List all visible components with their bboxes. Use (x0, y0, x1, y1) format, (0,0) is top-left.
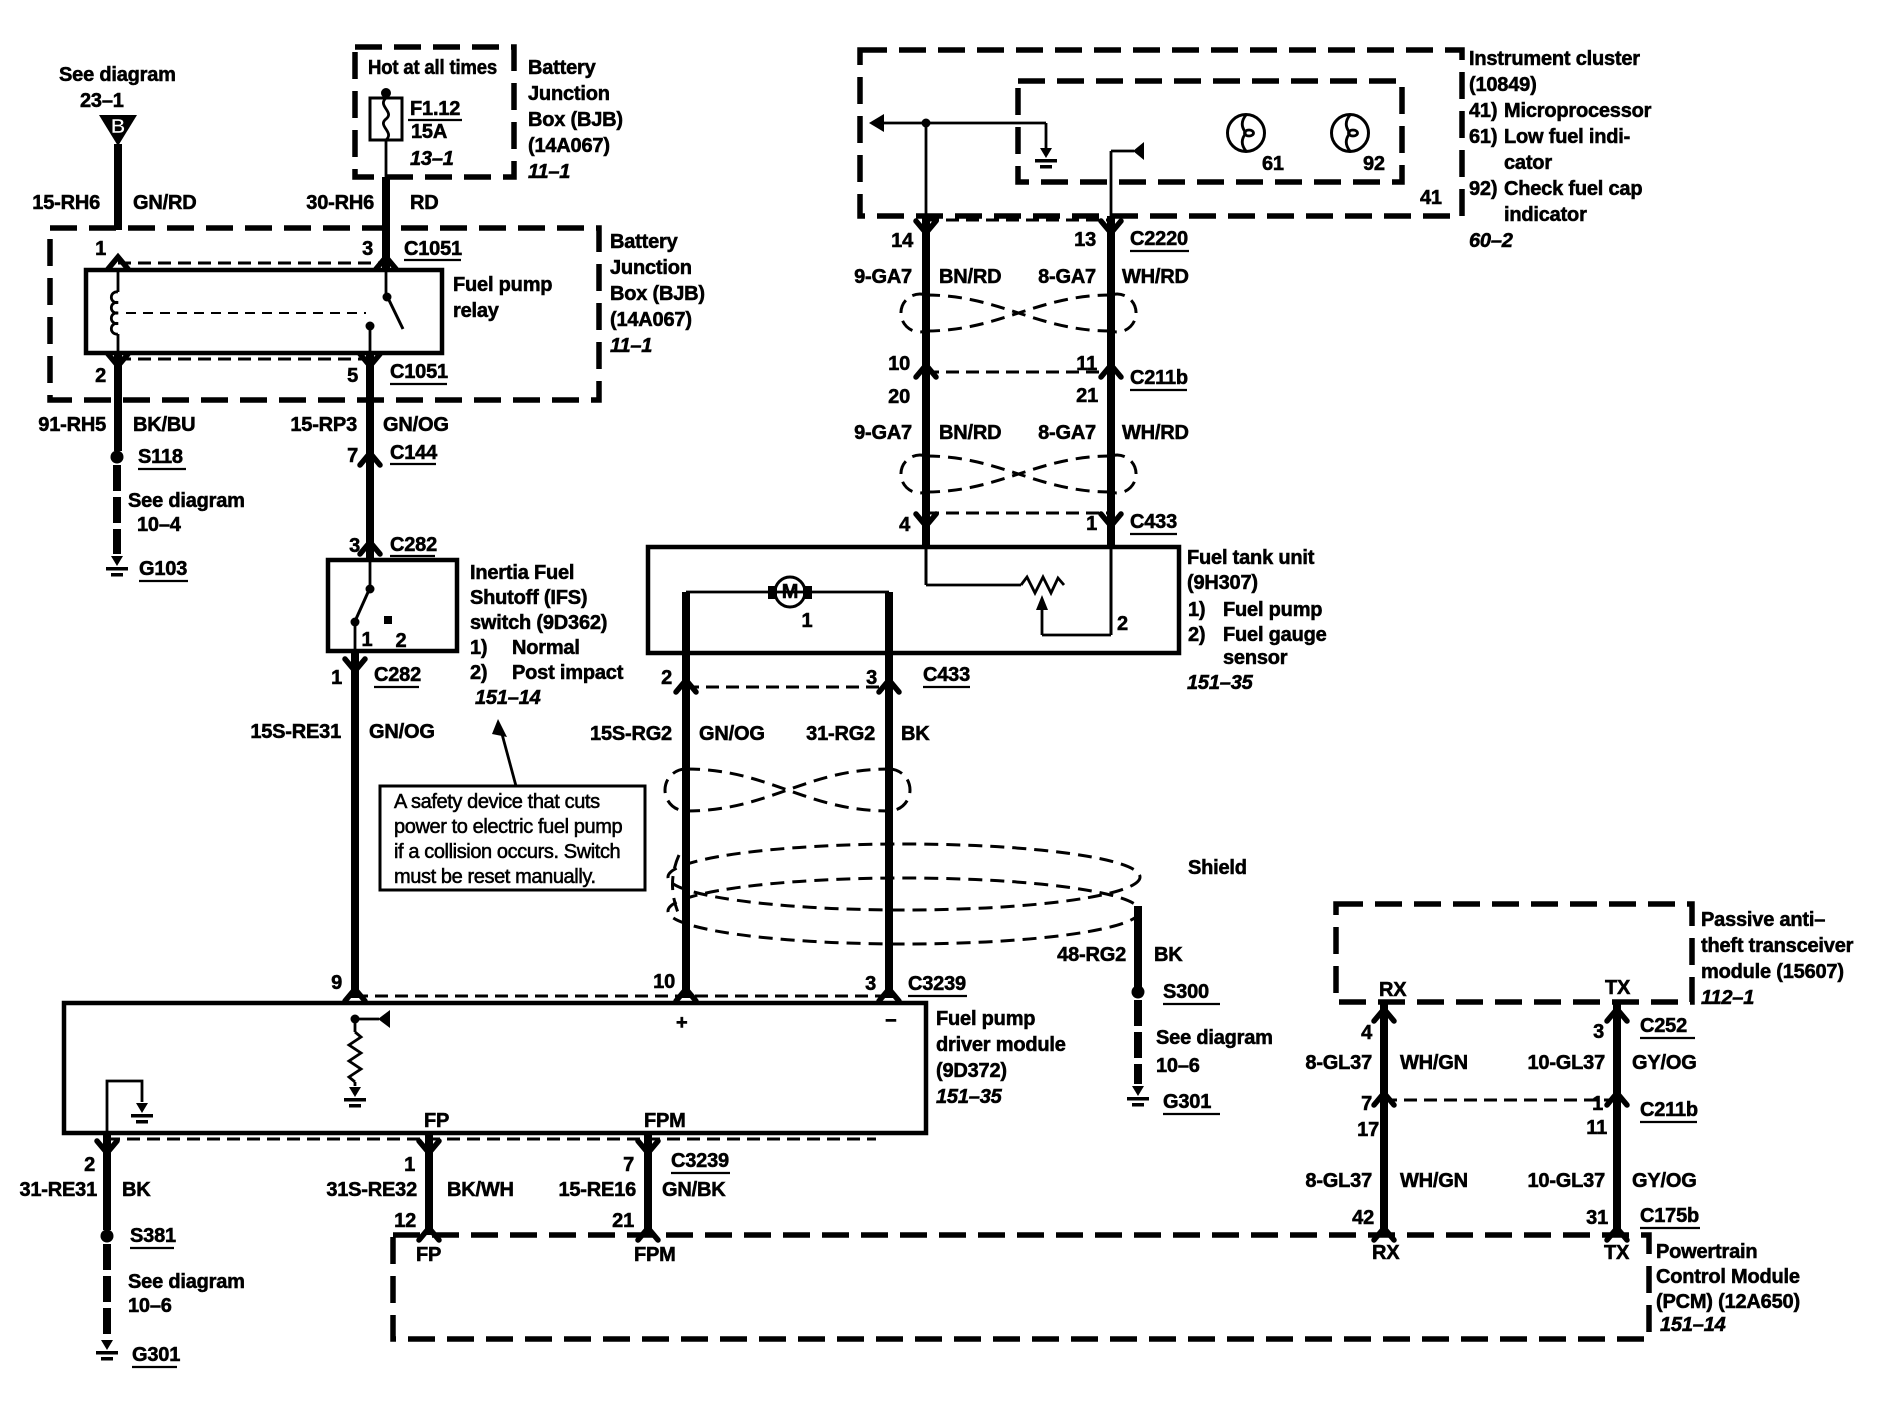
pin labels 7 1 C211b 17 11 (1357, 1093, 1698, 1141)
passive anti-theft transceiver module box (dashed) (1336, 904, 1692, 1002)
pin 13 chevron (1101, 221, 1121, 233)
svg-text:10–6: 10–6 (1156, 1055, 1200, 1077)
connector C433 dashed line (926, 512, 1111, 515)
svg-text:relay: relay (453, 300, 500, 322)
svg-text:9-GA7: 9-GA7 (854, 422, 912, 444)
connector C144 pin 7 chevron (360, 453, 380, 465)
wire labels 31S-RE32 BK/WH 15-RE16 GN/BK (326, 1179, 726, 1201)
pin labels 42 31 C175b (1352, 1205, 1700, 1229)
svg-text:Battery: Battery (610, 231, 679, 253)
wire S300 to G301 (dashed thick) (1134, 1000, 1142, 1084)
svg-text:GY/OG: GY/OG (1632, 1052, 1697, 1074)
svg-text:Control Module: Control Module (1656, 1266, 1800, 1288)
svg-text:+: + (676, 1012, 687, 1034)
pin labels 14 13 C2220 (891, 228, 1189, 252)
svg-text:3: 3 (866, 667, 877, 689)
svg-text:RX: RX (1372, 1242, 1400, 1264)
wire label 91-RH5 BK/BU (38, 414, 195, 436)
svg-text:BK/BU: BK/BU (133, 414, 195, 436)
svg-text:20: 20 (888, 386, 910, 408)
svg-text:48-RG2: 48-RG2 (1057, 944, 1126, 966)
cluster internal wire pin 14 (925, 123, 928, 216)
svg-text:C211b: C211b (1130, 367, 1188, 389)
svg-text:Battery: Battery (528, 57, 597, 79)
svg-text:4: 4 (1361, 1022, 1373, 1044)
wire 31-RG2 BK (tank to FPDM) (885, 653, 893, 998)
svg-text:WH/GN: WH/GN (1400, 1170, 1468, 1192)
svg-text:See diagram: See diagram (128, 490, 245, 512)
svg-text:2: 2 (95, 365, 106, 387)
svg-text:C252: C252 (1640, 1015, 1687, 1037)
svg-text:module (15607): module (15607) (1701, 961, 1844, 983)
svg-text:151–14: 151–14 (1660, 1314, 1726, 1336)
svg-text:1: 1 (362, 629, 373, 651)
svg-text:2: 2 (396, 630, 407, 652)
svg-text:Box (BJB): Box (BJB) (528, 109, 623, 131)
FPDM internal ground (right) (344, 1087, 366, 1108)
wire 15-RP3 GN/OG from relay pin 5 to IFS (366, 353, 374, 560)
svg-text:M: M (782, 581, 798, 603)
pin 10 chevron (676, 989, 696, 1001)
pin 1 C1051 chevron (108, 257, 128, 269)
svg-text:7: 7 (623, 1154, 634, 1176)
pin labels 12 21 (394, 1210, 634, 1232)
wire label 15S-RE31 GN/OG (250, 721, 434, 743)
FPDM internal ground (left, pin 2) (107, 1081, 153, 1133)
lamp 61 low fuel indicator (1228, 115, 1284, 176)
svg-text:S300: S300 (1163, 981, 1209, 1003)
svg-text:30-RH6: 30-RH6 (306, 192, 374, 214)
wire RX 8-GL37 WH/GN (1380, 1002, 1388, 1235)
fuel pump motor M (686, 577, 889, 632)
svg-text:3: 3 (362, 238, 373, 260)
connector C211b (right) dashed line (1384, 1099, 1617, 1102)
IFS internal switch (351, 560, 393, 651)
svg-text:FP: FP (424, 1110, 449, 1132)
svg-text:10-GL37: 10-GL37 (1527, 1052, 1605, 1074)
svg-text:Junction: Junction (610, 257, 692, 279)
svg-text:G301: G301 (1163, 1091, 1211, 1113)
wire 15-RE16 GN/BK (FPM to PCM) (644, 1133, 652, 1235)
svg-text:41): 41) (1469, 100, 1497, 122)
svg-text:−: − (885, 1010, 896, 1032)
pin labels 2 1 7 C3239 (84, 1150, 730, 1176)
pin 3 chevron (879, 680, 899, 692)
svg-text:BN/RD: BN/RD (939, 266, 1001, 288)
label Battery Junction Box (BJB) (14A067) 11-1 (fuse box) (528, 57, 623, 183)
twisted pair symbol (tank wires) (665, 769, 910, 811)
relay switch contact (366, 270, 404, 353)
svg-text:(14A067): (14A067) (528, 135, 610, 157)
svg-text:driver module: driver module (936, 1034, 1066, 1056)
pin 12 chevron into PCM (419, 1228, 439, 1240)
label Powertrain Control Module (PCM) (12A650) 151-14 (1656, 1241, 1800, 1336)
svg-text:31: 31 (1586, 1207, 1608, 1229)
fuse value label F1.12 15A 13-1 (408, 98, 462, 170)
ground G103 (106, 556, 188, 581)
instrument cluster inner microprocessor box (dashed) (1018, 81, 1402, 182)
svg-text:Powertrain: Powertrain (1656, 1241, 1757, 1263)
svg-text:1): 1) (470, 637, 487, 659)
pin label 7 C144 (347, 442, 438, 467)
svg-text:cator: cator (1504, 152, 1552, 174)
svg-text:10-GL37: 10-GL37 (1527, 1170, 1605, 1192)
svg-text:B: B (111, 116, 125, 138)
svg-text:9-GA7: 9-GA7 (854, 266, 912, 288)
polarity labels + - (676, 1010, 896, 1034)
pin 3 chevron C252 (1607, 1009, 1627, 1021)
svg-text:10: 10 (888, 353, 910, 375)
pin 1 FP chevron (419, 1141, 439, 1153)
ground G301 (left) (96, 1340, 180, 1367)
svg-text:11: 11 (1076, 353, 1097, 375)
Inertia Fuel Shutoff switch box (328, 560, 457, 651)
connector triangle B (99, 115, 137, 146)
pin 5 C1051 chevron (360, 354, 380, 366)
svg-text:23–1: 23–1 (80, 90, 124, 112)
microprocessor output arrow (left) (869, 114, 1046, 132)
PATS terminal labels RX TX (1379, 977, 1631, 1001)
connector C3239 (FPDM top) dashed line (355, 995, 889, 998)
pin 31 chevron into PCM (1607, 1228, 1627, 1240)
svg-text:Inertia Fuel: Inertia Fuel (470, 562, 574, 584)
svg-text:3: 3 (865, 973, 876, 995)
svg-text:Fuel pump: Fuel pump (453, 274, 552, 296)
svg-text:31-RG2: 31-RG2 (806, 723, 875, 745)
connector C211b dashed line (926, 371, 1111, 374)
svg-text:42: 42 (1352, 1207, 1374, 1229)
pin 7 chevron C211b (1374, 1093, 1394, 1105)
wire 15S-RG2 GN/OG (tank to FPDM) (682, 653, 690, 998)
twisted pair symbol lower (901, 455, 1136, 493)
svg-text:11: 11 (1586, 1117, 1607, 1139)
svg-text:Hot at all times: Hot at all times (368, 57, 497, 79)
svg-text:theft transceiver: theft transceiver (1701, 935, 1854, 957)
svg-text:(9H307): (9H307) (1187, 572, 1258, 594)
svg-text:151–35: 151–35 (936, 1086, 1003, 1108)
wire S381 to G301 (dashed thick) (103, 1244, 111, 1338)
svg-text:151–14: 151–14 (475, 687, 541, 709)
label See diagram 10-6 (1156, 1027, 1273, 1077)
pin 4 chevron C433 (916, 514, 936, 526)
svg-text:2: 2 (661, 667, 672, 689)
fuel gauge sensor wiper arrow (1036, 595, 1111, 635)
svg-text:17: 17 (1357, 1119, 1379, 1141)
svg-text:C1051: C1051 (390, 361, 448, 383)
svg-text:8-GL37: 8-GL37 (1305, 1170, 1372, 1192)
IFS position labels 1 2 (362, 629, 407, 652)
svg-text:(PCM) (12A650): (PCM) (12A650) (1656, 1291, 1800, 1313)
label Instrument cluster (10849) 41) 61) 92) (1469, 48, 1652, 252)
svg-text:GY/OG: GY/OG (1632, 1170, 1697, 1192)
svg-text:Junction: Junction (528, 83, 610, 105)
svg-text:Fuel pump: Fuel pump (936, 1008, 1035, 1030)
svg-text:GN/BK: GN/BK (662, 1179, 726, 1201)
wire 15-RH6 GN/RD from triangle B to BJB (114, 144, 122, 230)
Battery Junction Box (dashed) (50, 228, 599, 400)
wire 9-GA7 BN/RD (cluster to C211b) (922, 216, 930, 547)
shield drain wire 48-RG2 BK (1134, 906, 1142, 987)
svg-text:Fuel pump: Fuel pump (1223, 599, 1322, 621)
svg-text:15-RP3: 15-RP3 (290, 414, 357, 436)
fuse F1.12 15A (370, 88, 402, 177)
svg-text:151–35: 151–35 (1187, 672, 1254, 694)
svg-text:15S-RE31: 15S-RE31 (250, 721, 341, 743)
label See diagram 10-6 (128, 1271, 245, 1317)
svg-text:41: 41 (1420, 187, 1442, 209)
svg-text:BN/RD: BN/RD (939, 422, 1001, 444)
pin 9 chevron (345, 989, 365, 1001)
svg-text:RD: RD (410, 192, 439, 214)
svg-text:92: 92 (1363, 153, 1385, 175)
pin 3 C1051 chevron (376, 257, 396, 269)
svg-text:G103: G103 (139, 558, 187, 580)
svg-text:must be reset manually.: must be reset manually. (394, 866, 596, 888)
pin labels 4 3 C252 (1361, 1015, 1695, 1044)
svg-text:1): 1) (1188, 599, 1205, 621)
svg-text:power to electric fuel pump: power to electric fuel pump (394, 816, 622, 838)
connector C433 (tank bottom) dashed line (686, 686, 889, 689)
wire 15S-RE31 GN/OG from IFS to fuel pump driver module (351, 651, 359, 998)
svg-text:11–1: 11–1 (610, 335, 652, 357)
svg-text:WH/GN: WH/GN (1400, 1052, 1468, 1074)
ground G301 (shield) (1127, 1086, 1220, 1114)
node B power feed label "See diagram 23-1" (59, 64, 176, 112)
svg-text:2): 2) (1188, 624, 1205, 646)
svg-text:C144: C144 (390, 442, 438, 464)
svg-text:GN/OG: GN/OG (699, 723, 765, 745)
label Battery Junction Box (BJB) (14A067) 11-1 (610, 231, 705, 357)
svg-text:(10849): (10849) (1469, 74, 1537, 96)
svg-text:See diagram: See diagram (128, 1271, 245, 1293)
pin labels 2 5 C1051 (95, 361, 448, 387)
wire 8-GA7 WH/RD (cluster to C211b) (1107, 216, 1115, 547)
Hot at all times fuse box (dashed) (355, 47, 514, 177)
svg-text:1: 1 (404, 1154, 415, 1176)
wire 30-RH6 RD from fuse to relay (382, 177, 390, 272)
svg-text:1: 1 (331, 667, 342, 689)
powertrain control module box (dashed) (393, 1235, 1649, 1339)
svg-text:C3239: C3239 (908, 973, 966, 995)
wire label 30-RH6 RD (306, 192, 438, 214)
svg-text:7: 7 (1361, 1093, 1372, 1115)
svg-text:indicator: indicator (1504, 204, 1587, 226)
svg-text:FP: FP (416, 1244, 441, 1266)
wire label 15-RH6 GN/RD (32, 192, 196, 214)
svg-text:31-RE31: 31-RE31 (19, 1179, 97, 1201)
svg-text:C282: C282 (390, 534, 437, 556)
svg-text:TX: TX (1605, 977, 1631, 999)
svg-text:if a collision occurs. Switch: if a collision occurs. Switch (394, 841, 620, 863)
FPDM internal resistor to ground (349, 1019, 361, 1086)
fuel gauge sensor return wire pin 1 (1110, 549, 1113, 635)
svg-text:Post impact: Post impact (512, 662, 624, 684)
svg-text:G301: G301 (132, 1344, 180, 1366)
fuel pump driver module box (64, 1003, 926, 1133)
wire 31S-RE32 BK/WH (FP to PCM) (425, 1133, 433, 1235)
cluster internal wire pin 13 with arrow (1111, 142, 1144, 216)
connector C282 pin 1 chevron below IFS (345, 659, 365, 671)
svg-text:1: 1 (1086, 513, 1097, 535)
svg-text:GN/OG: GN/OG (369, 721, 435, 743)
pin 21 chevron into PCM (638, 1228, 658, 1240)
fuel gauge sensor feed wire (926, 549, 1021, 585)
svg-text:Check fuel cap: Check fuel cap (1504, 178, 1642, 200)
svg-text:Microprocessor: Microprocessor (1504, 100, 1652, 122)
connector C3239 (FPDM bottom) dashed line (107, 1138, 876, 1141)
svg-text:(9D372): (9D372) (936, 1060, 1007, 1082)
svg-text:2: 2 (1117, 613, 1128, 635)
svg-text:1: 1 (1592, 1093, 1603, 1115)
wire 31-RE31 BK from FPDM pin 2 (103, 1133, 111, 1230)
relay armature dashed link (126, 312, 366, 314)
wire from S118 to G103 (dashed thick) (113, 465, 121, 554)
label Inertia Fuel Shutoff (IFS) switch (9D362) (470, 562, 624, 709)
splice S118 (111, 446, 187, 469)
FPDM terminal labels FP FPM (424, 1110, 686, 1132)
svg-text:A safety device that cuts: A safety device that cuts (394, 791, 600, 813)
svg-text:10–4: 10–4 (137, 514, 182, 536)
svg-text:C211b: C211b (1640, 1099, 1698, 1121)
svg-text:BK: BK (901, 723, 930, 745)
label Fuel pump driver module (9D372) 151-35 (936, 1008, 1066, 1108)
pin labels 9 10 3 C3239 (331, 971, 967, 996)
fuel pump relay box (86, 270, 442, 353)
svg-text:Fuel tank unit: Fuel tank unit (1187, 547, 1315, 569)
svg-text:switch (9D362): switch (9D362) (470, 612, 607, 634)
svg-text:Box (BJB): Box (BJB) (610, 283, 705, 305)
label Passive anti-theft transceiver module (15607) 112-1 (1701, 909, 1854, 1009)
svg-text:C433: C433 (923, 664, 970, 686)
label Fuel pump relay (453, 274, 552, 322)
svg-text:61: 61 (1262, 153, 1284, 175)
wire labels 8-GL37 WH/GN 10-GL37 GY/OG (1305, 1052, 1696, 1074)
relay coil (111, 270, 118, 353)
svg-text:10: 10 (653, 971, 675, 993)
svg-text:RX: RX (1379, 979, 1407, 1001)
pin labels 4 1 C433 (899, 511, 1177, 536)
svg-text:31S-RE32: 31S-RE32 (326, 1179, 417, 1201)
wire label 15-RP3 GN/OG (290, 414, 448, 436)
svg-text:5: 5 (347, 365, 358, 387)
svg-text:7: 7 (347, 445, 358, 467)
svg-text:21: 21 (1076, 385, 1098, 407)
connector C1051 top dashed line (118, 262, 386, 265)
wire labels 9-GA7 BN/RD 8-GA7 WH/RD lower (854, 422, 1189, 444)
svg-text:sensor: sensor (1223, 647, 1288, 669)
pin 3 chevron (879, 989, 899, 1001)
pin 10 chevron C211b (916, 365, 936, 377)
pin 7 FPM chevron (638, 1141, 658, 1153)
svg-text:C282: C282 (374, 664, 421, 686)
svg-text:60–2: 60–2 (1469, 230, 1513, 252)
svg-text:1: 1 (95, 238, 106, 260)
fuel gauge sensor resistor (1021, 577, 1064, 593)
svg-text:C2220: C2220 (1130, 228, 1188, 250)
svg-text:Fuel gauge: Fuel gauge (1223, 624, 1327, 646)
lamp 92 check fuel cap indicator (1332, 115, 1385, 176)
pin labels 10 11 C211b 20 21 (888, 353, 1188, 408)
svg-text:GN/OG: GN/OG (383, 414, 449, 436)
fuel pump motor drop wires (686, 592, 889, 653)
connector C1051 bottom dashed line (118, 358, 370, 361)
shield symbol (dashed ellipses) (668, 844, 1140, 944)
pin 14 chevron (916, 221, 936, 233)
svg-text:F1.12: F1.12 (410, 98, 460, 120)
svg-text:See diagram: See diagram (59, 64, 176, 86)
svg-text:WH/RD: WH/RD (1122, 266, 1189, 288)
svg-text:8-GA7: 8-GA7 (1038, 422, 1096, 444)
pin 1 chevron C433 (1101, 514, 1121, 526)
svg-text:15-RE16: 15-RE16 (558, 1179, 636, 1201)
svg-text:14: 14 (891, 230, 914, 252)
svg-text:3: 3 (349, 535, 360, 557)
svg-text:10–6: 10–6 (128, 1295, 172, 1317)
svg-text:Shutoff (IFS): Shutoff (IFS) (470, 587, 587, 609)
svg-text:4: 4 (899, 514, 911, 536)
label See diagram 10-4 (128, 490, 245, 536)
svg-text:WH/RD: WH/RD (1122, 422, 1189, 444)
note arrow to 151-14 (492, 719, 516, 786)
svg-text:TX: TX (1604, 1242, 1630, 1264)
svg-text:92): 92) (1469, 178, 1497, 200)
svg-text:Passive anti–: Passive anti– (1701, 909, 1825, 931)
svg-text:FPM: FPM (634, 1244, 676, 1266)
PCM terminal labels FP FPM RX TX (416, 1242, 1630, 1266)
FPDM internal sense node and arrow (351, 1010, 391, 1028)
svg-text:S118: S118 (138, 446, 183, 468)
pin label 3 C282 (349, 534, 437, 557)
svg-text:8-GA7: 8-GA7 (1038, 266, 1096, 288)
note box: safety device text (380, 786, 645, 890)
splice S381 (101, 1225, 176, 1248)
pin labels 2 3 C433 (661, 664, 970, 689)
svg-text:GN/RD: GN/RD (133, 192, 196, 214)
twisted pair symbol upper (901, 294, 1136, 332)
connector C2220 dashed line (926, 219, 1111, 222)
pin 2 chevron (97, 1141, 117, 1153)
wire label 31-RE31 BK (19, 1179, 151, 1201)
wire labels 9-GA7 BN/RD 8-GA7 WH/RD (854, 266, 1189, 288)
svg-text:C433: C433 (1130, 511, 1177, 533)
svg-text:2: 2 (84, 1154, 95, 1176)
svg-text:C1051: C1051 (404, 238, 462, 260)
svg-text:BK: BK (1154, 944, 1183, 966)
pin 1 chevron C211b (1607, 1093, 1627, 1105)
svg-text:FPM: FPM (644, 1110, 686, 1132)
pin 11 chevron C211b (1101, 365, 1121, 377)
svg-text:112–1: 112–1 (1701, 987, 1754, 1009)
svg-text:See diagram: See diagram (1156, 1027, 1273, 1049)
splice S300 (1132, 981, 1221, 1004)
svg-text:BK/WH: BK/WH (447, 1179, 514, 1201)
pin label 1 C282 (331, 664, 421, 689)
junction node on cluster wire 14 (922, 119, 931, 128)
svg-text:9: 9 (331, 972, 342, 994)
wire 91-RH5 BK/BU from relay pin 2 (114, 353, 122, 451)
svg-text:13–1: 13–1 (410, 148, 454, 170)
svg-text:15-RH6: 15-RH6 (32, 192, 100, 214)
svg-text:BK: BK (122, 1179, 151, 1201)
svg-text:C3239: C3239 (671, 1150, 729, 1172)
svg-text:Normal: Normal (512, 637, 580, 659)
svg-text:Low fuel indi-: Low fuel indi- (1504, 126, 1630, 148)
fuel tank unit box (648, 547, 1179, 653)
label Fuel tank unit (9H307) 1) Fuel pump 2) Fuel gauge sensor 151-35 (1187, 547, 1327, 694)
svg-text:13: 13 (1074, 229, 1096, 251)
wire labels 8-GL37 WH/GN 10-GL37 GY/OG lower (1305, 1170, 1696, 1192)
svg-text:91-RH5: 91-RH5 (38, 414, 106, 436)
